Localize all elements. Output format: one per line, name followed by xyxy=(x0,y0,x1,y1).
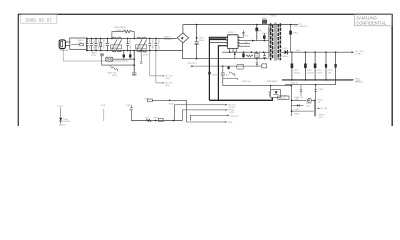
svg-text:NEU: NEU xyxy=(126,105,131,107)
stub wire 4 xyxy=(187,121,225,123)
small part on left of lower rail xyxy=(300,85,302,96)
svg-text:1000uF: 1000uF xyxy=(307,72,315,74)
vertical x=134.2 down to cap xyxy=(133,51,135,74)
svg-text:L802: L802 xyxy=(58,106,63,108)
opto feedback line xyxy=(223,85,291,87)
svg-text:R822: R822 xyxy=(169,103,175,105)
svg-text:Degauss: Degauss xyxy=(230,115,240,117)
aux diode D802 xyxy=(263,35,266,38)
bulk cap C807 xyxy=(195,25,199,59)
svg-text:1K: 1K xyxy=(318,102,321,104)
svg-text:L851: L851 xyxy=(296,50,301,52)
svg-text:LF801: LF801 xyxy=(111,47,118,49)
wire IC pin2 left to long vertical xyxy=(209,39,226,41)
IC801 PWM controller box xyxy=(228,35,238,49)
bottom bundle wire of primary block xyxy=(209,98,272,101)
frame left border xyxy=(17,14,19,126)
svg-text:AC_Line: AC_Line xyxy=(165,75,174,78)
svg-text:104: 104 xyxy=(328,72,332,74)
svg-text:AC_Neu: AC_Neu xyxy=(165,82,173,85)
cap C810 blob below rail xyxy=(243,52,245,58)
sense tap wire from cap C809 xyxy=(156,51,163,83)
cap C801 vertical xyxy=(86,38,89,50)
horizontal line y=65.1 xyxy=(102,56,135,65)
svg-text:C812: C812 xyxy=(224,74,230,76)
svg-text:GND_S: GND_S xyxy=(290,82,298,84)
snubber clamp box on B+ rail xyxy=(262,20,267,24)
opto left leg element xyxy=(268,91,270,97)
cap C804 vertical xyxy=(106,38,109,50)
cap C855 right xyxy=(335,52,337,84)
wire bridge top to B+ rail xyxy=(182,25,184,33)
resistor R801 vertical xyxy=(100,38,102,50)
boxed connector label above bottom bundle xyxy=(278,96,289,99)
svg-text:680K: 680K xyxy=(112,75,117,77)
vertical x=174.3 xyxy=(173,105,175,121)
svg-text:C802 222M: C802 222M xyxy=(93,39,95,50)
svg-text:2005. 03. 07: 2005. 03. 07 xyxy=(26,18,53,23)
svg-text:B+: B+ xyxy=(300,23,303,25)
svg-text:5.6V: 5.6V xyxy=(306,106,311,108)
svg-text:CN800 AC: CN800 AC xyxy=(59,49,69,52)
svg-text:471M: 471M xyxy=(91,55,96,57)
output cap C854 xyxy=(325,52,327,80)
svg-text:LF802: LF802 xyxy=(136,47,143,49)
svg-text:CN851: CN851 xyxy=(279,98,287,100)
connector CN800 AC inlet xyxy=(59,40,65,49)
wire IC pin5 right xyxy=(240,45,251,47)
svg-text:13V_Out: 13V_Out xyxy=(355,50,364,53)
resistor R807 horizontal zigzag xyxy=(246,55,253,57)
svg-text:470uF: 470uF xyxy=(317,72,323,74)
IC bottom pins to primary rail xyxy=(229,48,231,52)
svg-text:D852: D852 xyxy=(283,48,289,50)
svg-text:C801 224K: C801 224K xyxy=(88,39,90,50)
vertical from wire y100.3 xyxy=(186,100,188,122)
vertical drop x=123.8 with blob xyxy=(123,51,125,60)
svg-text:(Det): (Det) xyxy=(165,77,170,80)
svg-text:GSIB420: GSIB420 xyxy=(164,39,174,41)
svg-text:D802: D802 xyxy=(262,33,268,35)
wire IC pin3 stub xyxy=(210,41,226,43)
EMI lower rail xyxy=(87,49,183,50)
5V_SB stub arrow xyxy=(318,108,320,110)
cap C811 near transformer leg xyxy=(263,52,266,59)
NTC RT801 xyxy=(106,57,113,61)
output cap C852 xyxy=(304,52,306,80)
wire IC pin7 right to aux diode xyxy=(240,40,269,42)
net line y66 with left arrow xyxy=(190,65,192,67)
choke LF801 xyxy=(111,37,122,52)
svg-text:C805 224K: C805 224K xyxy=(129,39,131,50)
svg-text:R856: R856 xyxy=(295,113,301,115)
svg-text:CONFIDENTIAL: CONFIDENTIAL xyxy=(356,21,387,26)
primary return rail xyxy=(182,58,267,60)
stub wire AC_Det xyxy=(174,104,225,106)
diagonal resistor R804 xyxy=(110,65,118,71)
svg-text:SB560: SB560 xyxy=(282,56,289,58)
corner from rail end up xyxy=(181,110,183,121)
fuse block FS801 box xyxy=(70,38,87,49)
small box R808 xyxy=(255,54,260,58)
opto output vertical to bottom-right node xyxy=(291,86,293,116)
corner vertical for wire4 xyxy=(189,115,191,120)
svg-text:R812: R812 xyxy=(212,75,218,77)
svg-text:385VDC: 385VDC xyxy=(300,26,309,28)
startup parts under IC xyxy=(228,67,230,70)
B+ top rail xyxy=(183,24,298,26)
choke LF802 xyxy=(136,37,147,52)
cap to ground at bottom of 134.2 xyxy=(132,72,136,74)
wire IC pin8 right xyxy=(240,36,244,38)
junction dots EMI top rail xyxy=(86,38,156,40)
cap C805 between chokes xyxy=(126,38,129,50)
small part on primary vertical xyxy=(208,72,210,75)
cap C802 vertical xyxy=(90,38,93,50)
svg-text:C809 471M: C809 471M xyxy=(157,39,159,50)
svg-text:FEEDBACK: FEEDBACK xyxy=(267,80,278,83)
IC pins left xyxy=(226,37,239,47)
wire connector to fuse block upper xyxy=(65,41,69,43)
wire IC pin6 right xyxy=(240,42,251,44)
wire IC pin4 stub xyxy=(218,46,226,101)
svg-text:LIVE: LIVE xyxy=(101,105,106,107)
wire IC pin1 left to long vertical xyxy=(209,37,226,100)
dots on primary rail xyxy=(229,51,265,53)
dots on secondary rail xyxy=(291,51,336,53)
fuse symbol inside xyxy=(80,44,84,46)
svg-text:(Det): (Det) xyxy=(165,84,170,87)
cap C813 below lower rail xyxy=(140,51,142,63)
secondary output rail xyxy=(288,51,352,53)
wire NTC to verticals xyxy=(113,58,134,60)
resistor R802 bypass loop above top rail xyxy=(112,32,124,39)
transformer T801 windings xyxy=(269,23,281,61)
svg-text:C803 222M: C803 222M xyxy=(97,39,99,50)
svg-text:R815 103: R815 103 xyxy=(242,81,252,83)
svg-text:1N4007: 1N4007 xyxy=(63,121,71,123)
bottom rail xyxy=(131,120,182,122)
aux winding diode drop right of transformer xyxy=(290,25,292,53)
vertical at 314.6 down xyxy=(314,100,316,116)
diode D853 on mid wire xyxy=(292,105,297,107)
svg-text:GND_P: GND_P xyxy=(59,125,67,126)
output rectifier D852 xyxy=(285,50,288,54)
hatch marks xyxy=(101,53,103,56)
small box on y66 end xyxy=(262,64,267,68)
vertical drop x=130.2 with blob xyxy=(129,51,131,60)
vertical from lower rail to bottom right circuit xyxy=(315,85,317,117)
svg-text:(1.5A): (1.5A) xyxy=(355,53,361,56)
svg-text:6.2V: 6.2V xyxy=(319,117,324,119)
wire connector earth drop xyxy=(63,49,128,61)
optocoupler PC801 xyxy=(271,90,281,98)
frame top border xyxy=(18,13,393,15)
junction dots EMI lower rail xyxy=(86,50,156,52)
bottom wire xyxy=(292,110,314,112)
output cap C853 xyxy=(314,52,316,80)
stub wire PWR_ON xyxy=(182,109,225,111)
svg-text:R808: R808 xyxy=(255,56,261,58)
wire bundle shadow xyxy=(210,38,226,40)
samsung confidential box xyxy=(355,15,393,26)
cap C803 vertical xyxy=(95,38,98,50)
svg-text:C808 224K: C808 224K xyxy=(151,39,153,50)
secondary ground rail xyxy=(282,79,352,81)
svg-text:T801: T801 xyxy=(271,16,277,18)
svg-text:D851: D851 xyxy=(293,33,299,35)
svg-text:C856: C856 xyxy=(318,89,324,91)
node dots on B+ rail xyxy=(196,24,292,26)
svg-text:1000uF: 1000uF xyxy=(294,72,302,74)
transformer winding stub wires xyxy=(269,24,271,26)
date box xyxy=(21,15,57,24)
snubber cap C812 on x=222.8 xyxy=(221,66,225,86)
svg-text:150uF: 150uF xyxy=(199,40,206,42)
svg-text:(12V): (12V) xyxy=(229,112,234,114)
svg-text:PROTECT: PROTECT xyxy=(188,63,198,65)
wire connector to fuse block lower xyxy=(65,44,69,46)
bottom center: cap at x=131.3 xyxy=(130,110,132,121)
diode triangle down xyxy=(59,118,62,121)
svg-text:GND: GND xyxy=(228,122,233,124)
svg-text:Vstr: Vstr xyxy=(245,35,249,38)
svg-text:470K 470K: 470K 470K xyxy=(116,30,127,32)
output cap C851 xyxy=(291,52,293,80)
zener in circle ZD851 xyxy=(307,98,311,102)
stub wire from cap xyxy=(223,78,238,80)
primary lower rail xyxy=(222,51,269,53)
left bottom diode vertical xyxy=(60,108,62,118)
svg-text:R801 564J: R801 564J xyxy=(102,39,104,49)
cap below return rail at 257 xyxy=(256,59,258,67)
bottom right wire with zener circle xyxy=(292,99,307,101)
wire bridge bottom to lower rail xyxy=(182,43,184,59)
frame right border xyxy=(391,14,393,126)
lower secondary rail xyxy=(285,84,336,86)
svg-text:5V_SB: 5V_SB xyxy=(320,108,327,110)
bridge BD801 diamond xyxy=(177,33,188,43)
ground rail arrow xyxy=(352,79,354,81)
cap C808 xyxy=(148,38,151,50)
svg-text:471M: 471M xyxy=(143,55,148,57)
svg-text:D853: D853 xyxy=(295,109,301,111)
output rail arrow xyxy=(352,51,354,53)
stub wire 3 xyxy=(190,114,227,116)
cap C809 xyxy=(155,38,158,50)
EMI top rail xyxy=(87,37,177,39)
svg-text:AC_Det: AC_Det xyxy=(228,104,236,107)
sense tap wire from cap C808 xyxy=(150,51,163,76)
snubber diode D801 on B+ drop xyxy=(256,25,258,41)
sense arrow element below rail xyxy=(234,52,236,58)
